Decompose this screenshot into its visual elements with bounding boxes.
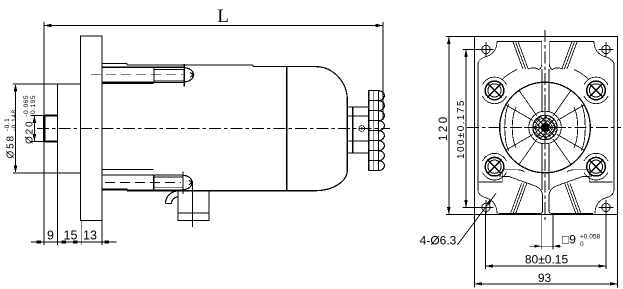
terminal box elbow inner arc xyxy=(172,197,179,204)
rear screw center dot xyxy=(361,127,363,129)
dim 120 label xyxy=(438,114,450,141)
bottom stud washer bar xyxy=(182,171,184,194)
cover lobe BL xyxy=(478,189,497,214)
dim 100 label xyxy=(456,99,467,159)
motor body top edge near flange xyxy=(102,62,127,64)
svg-text:L: L xyxy=(217,6,229,27)
hub crosshair xyxy=(524,127,566,129)
dia20 label xyxy=(23,95,37,144)
top stud washer bar xyxy=(183,64,185,87)
top stud centerline xyxy=(91,74,183,76)
svg-text:-0.148: -0.148 xyxy=(11,110,18,131)
svg-text:9: 9 xyxy=(47,229,54,243)
dimension L line xyxy=(44,25,383,27)
vent lines top-right xyxy=(562,42,577,69)
inner offset left xyxy=(477,63,479,191)
rear hub disc bottom xyxy=(347,152,369,154)
terminator dot 1 xyxy=(37,240,41,243)
handwheel mid line xyxy=(373,91,375,171)
extension line L left xyxy=(43,22,45,84)
handwheel bottom edge xyxy=(369,170,379,172)
dia58 arrow down xyxy=(14,166,18,174)
extension lines for 9/15/13 xyxy=(43,173,45,245)
bottom stud centerline xyxy=(105,182,181,184)
fan spokes xyxy=(506,69,584,190)
corner hole BR xyxy=(599,200,614,215)
rear hub shaft top xyxy=(347,115,369,117)
svg-text:4-Ø6.3: 4-Ø6.3 xyxy=(420,234,457,248)
cover bottom block left xyxy=(499,176,543,214)
top stud dome tip xyxy=(184,68,193,82)
terminator dot 4 xyxy=(105,240,109,243)
rear hub shaft bottom xyxy=(347,140,369,142)
spigot seam xyxy=(57,84,59,173)
cover connector TR xyxy=(574,70,589,80)
extension line L right xyxy=(382,22,384,120)
handwheel scallops xyxy=(378,91,384,171)
X hole TL xyxy=(483,77,507,104)
dim square9 extension lines xyxy=(540,215,542,250)
vent lines top-left xyxy=(513,42,528,69)
corner hole BL xyxy=(479,200,494,215)
terminal box centerline xyxy=(192,181,194,227)
spigot cylinder front face xyxy=(43,84,45,173)
motor body top edge middle xyxy=(127,64,253,66)
mounting plate xyxy=(81,36,102,221)
bottom stud shaft bottom xyxy=(102,189,183,191)
dim 100 extension lines xyxy=(463,49,482,51)
central hub knurled xyxy=(529,111,562,144)
dia20 arrow up xyxy=(33,115,37,123)
rear hub disc top xyxy=(347,106,369,108)
cover lobe TL xyxy=(478,42,497,65)
svg-text:120: 120 xyxy=(438,114,450,141)
dimension L arrow right xyxy=(376,24,384,28)
svg-text:93: 93 xyxy=(538,271,552,285)
svg-text:13: 13 xyxy=(83,229,97,243)
cover inner top line left xyxy=(497,41,542,43)
big fan circle xyxy=(500,82,591,173)
body top step 2 xyxy=(252,65,254,67)
centerline main axis xyxy=(37,128,390,130)
motor body bottom edge near flange xyxy=(102,189,127,191)
vertical centerline xyxy=(544,30,546,220)
X hole TR xyxy=(584,77,608,104)
vent lines bottom-left xyxy=(511,184,527,214)
svg-text:□9: □9 xyxy=(562,233,576,247)
svg-text:0: 0 xyxy=(580,241,584,248)
cover top notch right xyxy=(549,42,553,70)
dimension L arrow left xyxy=(44,24,52,28)
svg-text:-0.1: -0.1 xyxy=(4,118,11,131)
dim 93 line xyxy=(475,283,618,285)
dim 80 line xyxy=(486,265,607,267)
bottom stud thread runout bar xyxy=(153,175,155,190)
dimension dia20 line xyxy=(33,115,35,141)
handwheel left face xyxy=(368,91,370,171)
corner hole TL xyxy=(479,42,494,57)
body top step xyxy=(126,63,128,65)
terminator dot 2 xyxy=(61,240,65,243)
motor body right face xyxy=(346,100,348,170)
handwheel segment lines xyxy=(369,101,379,161)
motor body top edge rear xyxy=(253,67,347,101)
terminator dot 3 xyxy=(73,240,77,243)
cover lobe BR xyxy=(595,189,614,214)
dim 120 extension lines xyxy=(446,36,475,38)
bottom stud dome tip xyxy=(183,175,192,189)
top stud shaft top xyxy=(102,66,184,68)
terminal box elbow outer arc xyxy=(166,191,179,204)
dia20 extension top xyxy=(31,114,45,116)
rear hub step xyxy=(352,107,354,153)
terminal box seam xyxy=(178,212,209,214)
spigot top edge with extension to dim xyxy=(13,83,81,85)
cover top notch left xyxy=(538,42,542,70)
terminal box elbow mouth xyxy=(166,203,172,205)
flange square outline xyxy=(475,37,618,215)
dimension dia58 line xyxy=(15,85,17,172)
body seam line xyxy=(286,67,288,191)
top stud shaft bottom xyxy=(102,81,184,83)
handwheel right face xyxy=(377,91,379,171)
top stud thread runout bar xyxy=(153,67,155,82)
svg-text:-0.195: -0.195 xyxy=(30,95,37,116)
motor body bottom rear arc xyxy=(127,170,347,191)
bore top line xyxy=(44,114,58,116)
dim 100 line xyxy=(465,50,467,208)
bottom stud nose tick xyxy=(189,180,192,184)
top stud thread top line xyxy=(154,68,184,70)
cover inner top line right xyxy=(549,41,594,43)
dia58 arrow up xyxy=(14,84,18,92)
cover lobe TR xyxy=(594,42,614,65)
svg-text:Ø20: Ø20 xyxy=(25,120,36,144)
svg-text:15: 15 xyxy=(64,229,78,243)
svg-text:Ø58: Ø58 xyxy=(6,134,17,158)
top stud boss line xyxy=(102,83,154,85)
handwheel top edge xyxy=(369,90,379,92)
X hole BR xyxy=(584,153,608,180)
cover connector TL xyxy=(503,70,518,80)
X hole BL xyxy=(483,153,507,180)
svg-text:100±0.175: 100±0.175 xyxy=(456,99,467,159)
fan blade curves right xyxy=(582,104,586,151)
svg-text:-0.065: -0.065 xyxy=(23,95,30,116)
dia20 extension bottom xyxy=(31,141,45,143)
horizontal centerline right view xyxy=(467,127,621,129)
spigot bottom edge with extension to dim xyxy=(13,172,81,174)
corner hole TR xyxy=(599,42,614,57)
rear screw circle xyxy=(359,126,365,132)
vent lines bottom-right xyxy=(565,184,581,214)
dim 93 extension lines xyxy=(474,215,476,288)
inner offset right xyxy=(613,63,615,191)
dim square9 line xyxy=(529,245,562,247)
terminal box xyxy=(178,191,209,221)
cover bottom block right xyxy=(549,176,593,214)
fan blade curves left xyxy=(505,104,509,151)
dia58 label xyxy=(4,110,18,159)
bore bottom line xyxy=(44,141,58,143)
dia20 arrow down xyxy=(33,134,37,142)
svg-text:80±0.15: 80±0.15 xyxy=(525,253,569,267)
bottom stud boss line xyxy=(102,169,154,171)
dimension line 9/15/13 xyxy=(31,241,117,243)
spigot bore end thick bar xyxy=(43,116,46,142)
svg-text:+0.058: +0.058 xyxy=(580,234,600,241)
bottom stud thread bottom line xyxy=(154,187,183,189)
top stud thread bottom line xyxy=(154,79,184,81)
leader 4-dia6.3 xyxy=(457,194,496,246)
dim 120 line xyxy=(448,37,450,215)
bottom stud thread top line xyxy=(154,176,183,178)
dim 80 extension lines xyxy=(485,212,487,270)
bottom stud shaft top xyxy=(102,174,183,176)
top stud nose tick xyxy=(190,73,193,77)
